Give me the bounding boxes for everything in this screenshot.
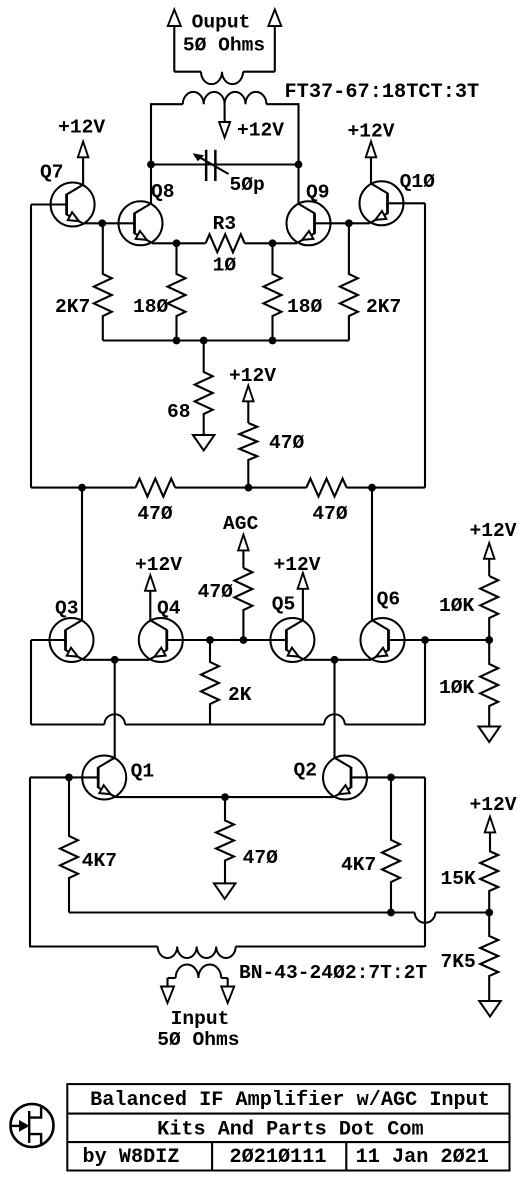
junction dot Q1 base/4K7 (65, 774, 73, 782)
wire Q6 base right (389, 639, 490, 641)
svg-text:Q5: Q5 (272, 594, 296, 616)
wire Q2 base rail down (236, 777, 425, 946)
label Input (171, 1008, 230, 1030)
transformer FT37-67 secondary winding (174, 72, 274, 84)
junction dot Q2 base/4K7 (387, 774, 395, 782)
label 50 Ohms (output) (183, 35, 265, 57)
svg-text:+12V: +12V (469, 520, 516, 542)
label +12V (15K) (469, 794, 516, 816)
wire 470 bus left end (31, 487, 136, 489)
wire Q3/Q6 base bias line (with hops) (31, 714, 425, 724)
title text Kits And Parts Dot Com (157, 1119, 424, 1142)
label Q4 (157, 598, 181, 620)
junction dot Q3/Q4 emitters (111, 656, 119, 664)
wire Q6 base node down (424, 640, 426, 725)
label 7K5 (441, 951, 476, 973)
AGC input arrow (238, 535, 249, 568)
power +12V arrow (10K divider) (484, 543, 495, 576)
wire Q5-Q6 emitter node (304, 659, 371, 661)
label Q1 (131, 761, 155, 783)
wire 470 bus right end (347, 487, 425, 489)
title text Balanced IF Amplifier w/AGC Input (90, 1089, 490, 1112)
transistor Q3 (50, 618, 94, 662)
transistor Q7 (51, 183, 95, 227)
transformer BN-43-2402 secondary winding (168, 965, 228, 988)
svg-text:47Ø: 47Ø (198, 581, 234, 603)
svg-text:2K: 2K (228, 684, 252, 706)
label Q5 (272, 594, 296, 616)
transistor Q9 (287, 201, 331, 245)
resistor 4K7 right (382, 777, 400, 912)
svg-text:47Ø: 47Ø (312, 503, 348, 525)
power +12V center tap arrow (219, 122, 230, 138)
wire bias bus (4K7 bottoms to divider, hop under x425) (69, 913, 489, 923)
label 50 Ohms (input) (157, 1029, 239, 1051)
junction dot bus-Q6 collector (368, 484, 376, 492)
junction dot 50p left (147, 161, 155, 169)
svg-text:7K5: 7K5 (441, 951, 476, 973)
wire center tap (224, 104, 226, 122)
label 4K7 (right) (341, 854, 376, 876)
svg-text:5Ø Ohms: 5Ø Ohms (157, 1029, 239, 1051)
power +12V arrow (Q5) (298, 573, 309, 621)
transistor Q10 (360, 181, 404, 225)
wire Q5Q6-node to Q2 collector (333, 660, 335, 758)
svg-text:Ouput: Ouput (192, 12, 251, 34)
svg-text:2K7: 2K7 (366, 296, 401, 318)
svg-text:Q9: Q9 (306, 182, 330, 204)
transformer FT37-67 primary winding (183, 92, 267, 104)
label Q7 (40, 162, 64, 184)
title block frame (67, 1084, 509, 1170)
label Q9 (306, 182, 330, 204)
junction dot 15K/7K5 (485, 909, 493, 917)
resistor 4K7 left (60, 777, 78, 912)
label Q8 (151, 181, 175, 203)
wire Q3 base to left (31, 639, 66, 641)
resistor 10K upper (480, 576, 498, 640)
junction dot Q9-base/Q10-emitter node (345, 219, 353, 227)
label BN-43-2402:7T:2T (239, 962, 427, 984)
resistor 470 (emitters) (216, 797, 234, 883)
output port terminal arrows 50 Ohms (168, 10, 281, 72)
junction dot 10K divider mid (485, 636, 493, 644)
svg-text:Q6: Q6 (377, 589, 401, 611)
ground (7K5) (479, 1001, 501, 1017)
transistor Q1 (82, 756, 126, 800)
resistor 470 (AGC) (234, 568, 252, 640)
transistor Q2 (323, 756, 367, 800)
wire R3 to Q9 emitter (245, 242, 297, 244)
label Ouput (192, 12, 251, 34)
label +12V (center tap) (237, 120, 284, 142)
svg-text:Q3: Q3 (55, 598, 79, 620)
label 2K (228, 684, 252, 706)
resistor 470 (+12V to bus) (239, 423, 257, 488)
wire Q3Q4-node to Q1 collector (114, 660, 116, 758)
power +12V arrow (470 bias) (243, 386, 254, 424)
resistor 180 left (168, 243, 186, 340)
svg-text:Kits And Parts Dot Com: Kits And Parts Dot Com (157, 1119, 424, 1142)
power +12V arrow (Q10) (366, 142, 377, 184)
junction dot bus-Q3 collector (78, 484, 86, 492)
input port arrows (161, 987, 234, 1004)
label 4K7 (left) (82, 850, 117, 872)
svg-text:+12V: +12V (135, 554, 182, 576)
resistor 7K5 (480, 913, 498, 1002)
left wire Q3 base down (30, 640, 32, 725)
svg-text:+12V: +12V (347, 121, 394, 143)
junction dot 50p right (295, 161, 303, 169)
svg-text:FT37-67:18TCT:3T: FT37-67:18TCT:3T (285, 81, 480, 104)
label Q3 (55, 598, 79, 620)
svg-text:4K7: 4K7 (82, 850, 117, 872)
wire primary right to 50p line (266, 104, 298, 164)
wire Q9 collector (297, 165, 299, 204)
svg-text:47Ø: 47Ø (137, 503, 173, 525)
label 2K7 (right) (366, 296, 401, 318)
label FT37-67:18TCT:3T (285, 81, 480, 104)
title text 11 Jan 2021 (356, 1146, 489, 1169)
svg-text:5Øp: 5Øp (230, 174, 265, 196)
resistor 15K (480, 851, 498, 913)
ground (10K divider) (478, 727, 500, 743)
junction dot Q5/Q6 emitters (331, 656, 339, 664)
logo JFET symbol (11, 1106, 41, 1146)
resistor 10K lower (480, 640, 498, 727)
resistor 470 (left feedback) (136, 479, 176, 497)
svg-text:+12V: +12V (237, 120, 284, 142)
svg-text:Q8: Q8 (151, 181, 175, 203)
resistor 68 (195, 341, 213, 436)
label R3 (213, 213, 237, 235)
svg-text:68: 68 (167, 401, 191, 423)
label +12V (Q4) (135, 554, 182, 576)
left rail vertical (Q7 base to 470 bus) (30, 205, 32, 488)
svg-text:Q1: Q1 (131, 761, 155, 783)
wire Q8 emitter to R3 (152, 242, 206, 244)
power +12V arrow (Q4) (145, 575, 156, 621)
wire Q7 emitter to Q8 base (84, 222, 134, 224)
title text by W8DIZ (83, 1146, 180, 1169)
junction dot 4K7R/bus (387, 909, 395, 917)
label +12V (10K divider) (469, 520, 516, 542)
svg-text:1ØK: 1ØK (439, 677, 475, 699)
junction dot R3 left (173, 239, 181, 247)
svg-text:Q4: Q4 (157, 598, 181, 620)
svg-text:2K7: 2K7 (55, 296, 90, 318)
svg-text:+12V: +12V (273, 554, 320, 576)
svg-text:by W8DIZ: by W8DIZ (83, 1146, 180, 1169)
svg-text:15K: 15K (441, 868, 477, 890)
transistor Q4 (139, 618, 183, 662)
resistor 2K (201, 640, 219, 725)
svg-text:47Ø: 47Ø (243, 847, 279, 869)
svg-text:BN-43-24Ø2:7T:2T: BN-43-24Ø2:7T:2T (239, 962, 427, 984)
svg-text:4K7: 4K7 (341, 854, 376, 876)
label 15K (441, 868, 477, 890)
wire resistor bottom bus (103, 339, 349, 341)
label +12V (Q5) (273, 554, 320, 576)
svg-text:Q1Ø: Q1Ø (400, 171, 436, 193)
wire Q6 collector (371, 488, 373, 621)
label 180 (left) (133, 296, 169, 318)
svg-text:Input: Input (171, 1008, 230, 1030)
label 470 (left feedback) (137, 503, 173, 525)
wire Q2 base right (351, 776, 425, 778)
label 470 (emitters) (243, 847, 279, 869)
capacitor 50p variable (193, 150, 229, 181)
logo circle (W8DIZ JFET) (11, 1104, 54, 1147)
transistor Q6 (361, 618, 405, 662)
wire Q4 base to Q5 base (167, 639, 287, 641)
resistor 2K7 right (340, 223, 358, 340)
wire Q1-Q2 emitter line (116, 796, 334, 798)
label 10K (lower) (439, 677, 475, 699)
resistor 180 right (264, 243, 282, 340)
svg-text:Q7: Q7 (40, 162, 64, 184)
svg-text:R3: R3 (213, 213, 237, 235)
label Q6 (377, 589, 401, 611)
label 10 (R3) (213, 255, 237, 277)
power +12V arrow (15K) (485, 817, 496, 851)
junction dot bus 180R (269, 337, 277, 345)
label 68 (167, 401, 191, 423)
junction dot AGC 470 bottom (240, 636, 248, 644)
wire Q1 base rail down (30, 777, 158, 946)
label 10K (upper) (439, 595, 475, 617)
wire Q3 collector (81, 488, 83, 621)
svg-text:AGC: AGC (223, 513, 259, 535)
svg-text:+12V: +12V (58, 117, 105, 139)
wire Q7 base to left rail (31, 203, 67, 205)
wire 50p node line (151, 163, 299, 165)
junction dot bus 180L (173, 337, 181, 345)
label 2K7 (left) (55, 296, 90, 318)
wire primary left to 50p line (151, 104, 183, 164)
junction dot R3 right (269, 239, 277, 247)
resistor 470 (right feedback) (306, 479, 346, 497)
svg-text:1Ø: 1Ø (213, 255, 237, 277)
svg-text:2Ø21Ø111: 2Ø21Ø111 (230, 1146, 327, 1169)
label 470 (bias) (269, 432, 305, 454)
label 470 (AGC) (198, 581, 234, 603)
label Q10 (400, 171, 436, 193)
label 50p (230, 174, 265, 196)
svg-text:1ØK: 1ØK (439, 595, 475, 617)
ground (470 emitters) (214, 883, 236, 899)
junction dot bus center (245, 484, 253, 492)
label 470 (right feedback) (312, 503, 348, 525)
label Q2 (294, 760, 318, 782)
wire Q8 collector (150, 165, 152, 204)
label +12V (470 bias) (229, 365, 276, 387)
svg-text:Q2: Q2 (294, 760, 318, 782)
label AGC (223, 513, 259, 535)
junction dot Q7-emitter/Q8-base node (98, 219, 106, 227)
wire 470 bus center (175, 487, 306, 489)
junction dot bus 68 tap (200, 337, 208, 345)
power +12V arrow (Q7) (78, 142, 89, 186)
junction dot emitter 470 (221, 793, 229, 801)
transistor Q8 (119, 201, 163, 245)
ground (68) (193, 435, 215, 451)
label +12V (Q10) (347, 121, 394, 143)
wire Q10 base to right rail (388, 202, 426, 204)
title text 20210111 (230, 1146, 327, 1169)
svg-text:18Ø: 18Ø (133, 296, 169, 318)
wire Q3-Q4 emitter node (83, 659, 149, 661)
transistor Q5 (270, 618, 314, 662)
resistor R3 (206, 234, 245, 252)
svg-text:18Ø: 18Ø (287, 296, 323, 318)
svg-text:Balanced IF Amplifier w/AGC In: Balanced IF Amplifier w/AGC Input (90, 1089, 490, 1112)
wire Q9 base to Q10 emitter (315, 222, 371, 224)
svg-text:+12V: +12V (229, 365, 276, 387)
resistor 2K7 left (94, 223, 112, 340)
wire Q1 base left (30, 776, 98, 778)
label 180 (right) (287, 296, 323, 318)
svg-text:11 Jan 2Ø21: 11 Jan 2Ø21 (356, 1146, 489, 1169)
junction dot 2K top (206, 636, 214, 644)
junction dot Q6 base/box (421, 636, 429, 644)
svg-text:5Ø Ohms: 5Ø Ohms (183, 35, 265, 57)
right rail vertical (Q10 base to 470 bus) (424, 203, 426, 487)
label +12V (Q7) (58, 117, 105, 139)
transformer BN-43-2402 primary winding (158, 947, 236, 959)
svg-text:+12V: +12V (469, 794, 516, 816)
svg-text:47Ø: 47Ø (269, 432, 305, 454)
